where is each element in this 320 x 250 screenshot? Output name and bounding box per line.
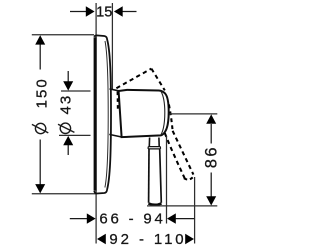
dimension 86: bottom ext line bbox=[147, 205, 217, 207]
dimension 86: top ext line (handle axis) bbox=[170, 113, 218, 115]
svg-text:92 - 110: 92 - 110 bbox=[109, 231, 186, 248]
dimension 92 - 110: arrows (inside, pointing outward) bbox=[97, 234, 106, 244]
svg-text:15: 15 bbox=[96, 4, 112, 20]
handle body: inner cap contour bbox=[161, 91, 165, 135]
dashed rotated lever: left edge bbox=[165, 133, 186, 180]
ext line right of handle body (for 66-94) bbox=[166, 136, 168, 224]
escutcheon plate: bottom edge bbox=[94, 189, 107, 193]
handle body outline bbox=[119, 90, 169, 137]
dashed rotated lever: right edge bbox=[173, 131, 194, 175]
front face extension line (right of plate, for dim 15) bbox=[111, 3, 113, 89]
diameter 150 dimension: top ext line bbox=[32, 34, 94, 36]
diameter 150 dimension line + arrows bbox=[39, 44, 41, 70]
dashed rotated lever: upper-right edge along body cap bbox=[169, 105, 173, 131]
diameter 43 text (rotated) bbox=[60, 123, 70, 133]
diameter 43 dimension: bottom ext line bbox=[59, 134, 91, 136]
lever neck bbox=[148, 138, 150, 147]
diameter 43 dimension: top ext line bbox=[61, 90, 91, 92]
neck bottom line (plate to handle body) bbox=[109, 134, 121, 137]
escutcheon plate: inner contour line bbox=[105, 41, 108, 188]
svg-text:86: 86 bbox=[203, 145, 221, 168]
dashed rotated handle: left vertical stub near plate bbox=[117, 92, 119, 112]
lever collar ring bbox=[148, 147, 160, 149]
neck top line (plate to handle body) bbox=[110, 89, 119, 91]
diameter 150 text (rotated) bbox=[35, 123, 45, 133]
svg-text:150: 150 bbox=[34, 77, 51, 108]
svg-text:43: 43 bbox=[58, 94, 75, 115]
dimension 15 line + arrows bbox=[70, 11, 137, 13]
dashed rotated handle: body right edge bbox=[151, 69, 164, 91]
dashed rotated handle: body bottom edge bbox=[116, 69, 151, 89]
wall / back extension line (long vertical at plate back) bbox=[95, 3, 97, 244]
escutcheon plate: front face (convex) bbox=[107, 40, 111, 190]
dimension 86: line + arrows bbox=[210, 124, 212, 144]
escutcheon plate: top edge bbox=[94, 35, 107, 39]
lever shaft bbox=[148, 149, 150, 203]
escutcheon plate: back edge (thick) bbox=[94, 37, 97, 190]
dimension 66 - 94: tails + arrows bbox=[70, 218, 87, 220]
diameter 150 dimension: bottom ext line bbox=[32, 193, 96, 195]
svg-text:66 - 94: 66 - 94 bbox=[99, 211, 165, 228]
diameter 43 dimension line + arrows bbox=[67, 71, 69, 83]
dashed rotated lever: tip cap bbox=[184, 176, 194, 180]
ext line at dashed lever tip (for 92-110) bbox=[194, 177, 196, 244]
lever bottom cap bbox=[148, 203, 161, 204]
